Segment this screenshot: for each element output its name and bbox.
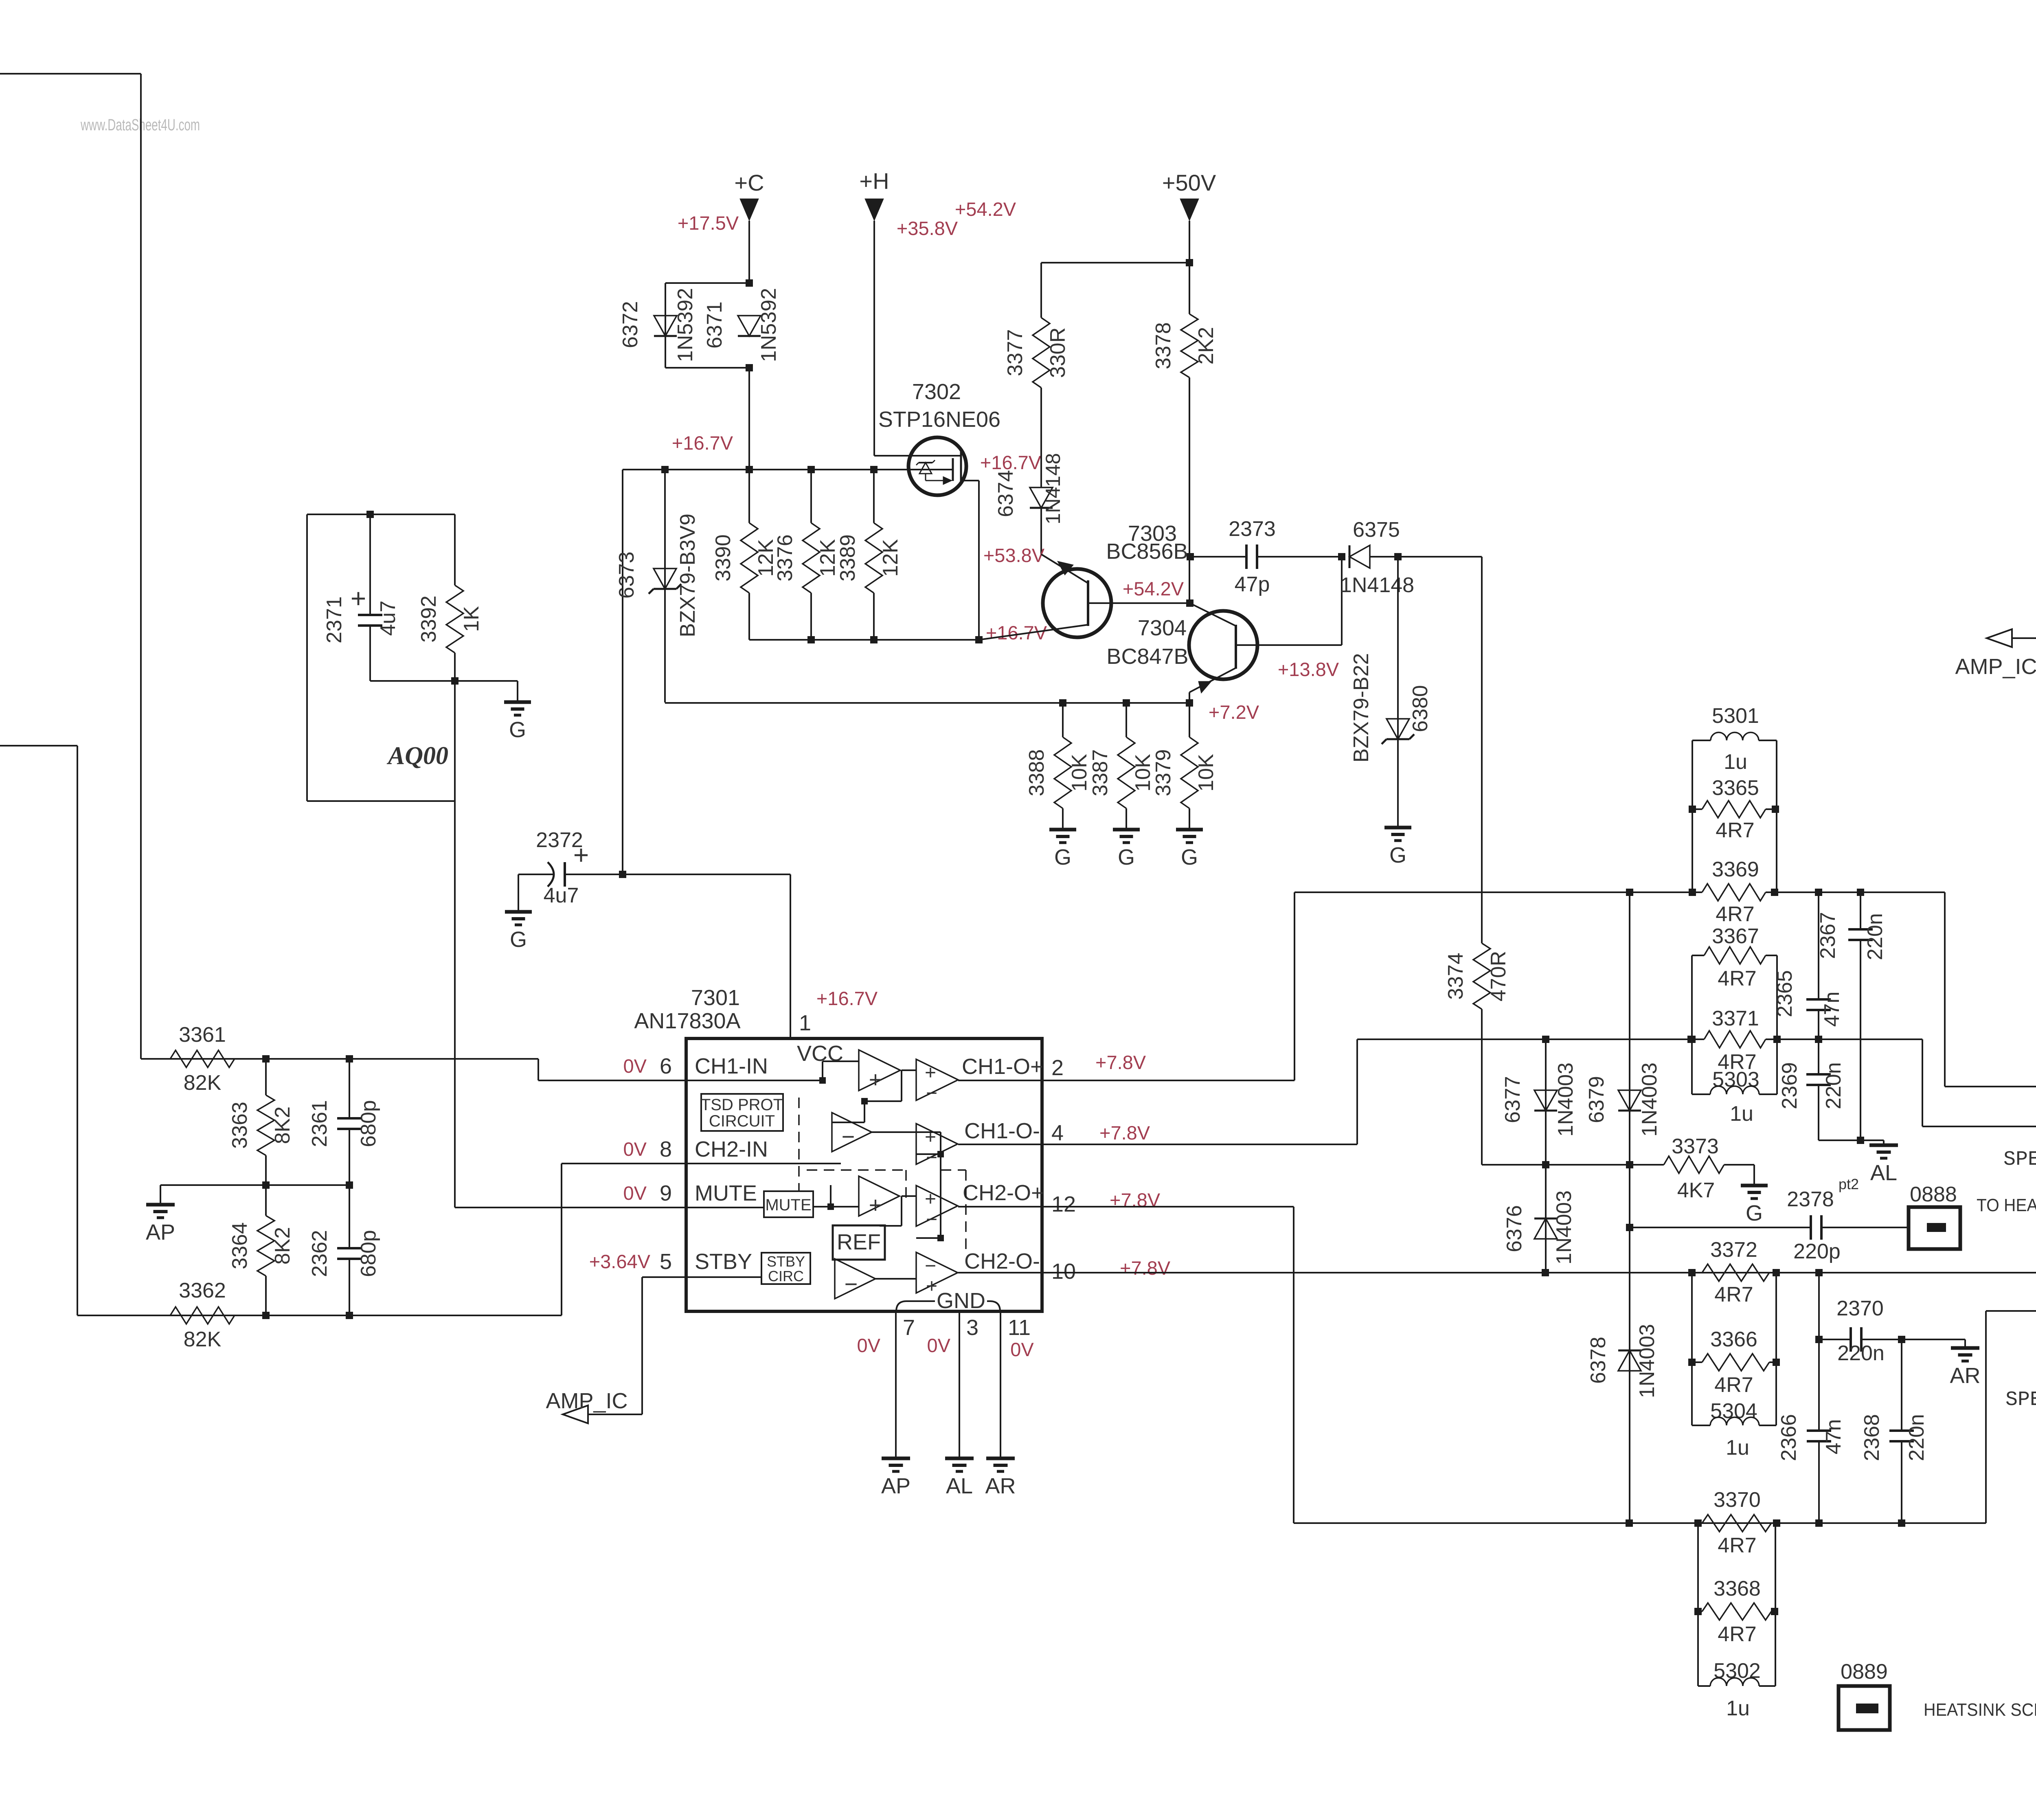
svg-text:12: 12 — [1051, 1192, 1076, 1216]
svg-text:1u: 1u — [1726, 1436, 1749, 1460]
inductor 5303 1u — [1692, 1086, 1777, 1094]
svg-text:3387: 3387 — [1088, 749, 1112, 797]
svg-text:CH2-O-: CH2-O- — [964, 1249, 1040, 1273]
svg-text:+54.2V: +54.2V — [1123, 578, 1184, 599]
junction — [1772, 806, 1779, 813]
svg-text:SPEAKER RIGHT: SPEAKER RIGHT — [2005, 1388, 2036, 1412]
wire 16.7V riser to 2372 — [622, 470, 623, 874]
label +7.2V — [1209, 701, 1259, 723]
ground G 6380 — [1384, 828, 1411, 867]
svg-text:STBY: STBY — [767, 1253, 805, 1270]
label diode 6372 — [619, 288, 697, 362]
svg-text:3388: 3388 — [1025, 749, 1049, 797]
junction — [1626, 1161, 1633, 1168]
label CH1-O- — [964, 1119, 1040, 1143]
junction — [1626, 1519, 1633, 1527]
svg-text:6374: 6374 — [994, 470, 1018, 517]
svg-text:5302: 5302 — [1713, 1659, 1761, 1683]
op-amp CH2 output- — [916, 1252, 958, 1297]
svg-text:0V: 0V — [623, 1138, 647, 1160]
label +16.7V at rail — [672, 432, 733, 454]
junction — [1773, 1359, 1780, 1366]
svg-text:0V: 0V — [857, 1335, 881, 1356]
junction — [1688, 1269, 1696, 1276]
junction — [1773, 1036, 1781, 1043]
junction — [1689, 889, 1696, 896]
power arrow +H — [865, 199, 884, 221]
label BC856B — [1106, 539, 1188, 564]
svg-text:330R: 330R — [1046, 327, 1070, 378]
label +16.7V right of 7302 — [980, 452, 1042, 473]
svg-text:4u7: 4u7 — [376, 601, 400, 636]
label STBY pin — [695, 1249, 752, 1274]
svg-text:+7.8V: +7.8V — [1095, 1052, 1146, 1073]
label +16.7V pin1 — [816, 988, 878, 1009]
svg-text:+: + — [925, 1126, 936, 1148]
transistor 7303 BC856B — [979, 554, 1189, 640]
label +53.8V — [983, 544, 1045, 566]
label capacitor 2369 — [1778, 1062, 1845, 1109]
svg-text:3369: 3369 — [1712, 858, 1759, 881]
junction — [1186, 259, 1193, 266]
svg-text:−: − — [926, 1082, 937, 1104]
svg-text:AL: AL — [1870, 1161, 1897, 1185]
svg-text:3363: 3363 — [228, 1102, 252, 1149]
svg-text:BZX79-B22: BZX79-B22 — [1349, 653, 1373, 763]
svg-text:G: G — [1054, 845, 1071, 869]
junction — [1815, 1519, 1823, 1527]
svg-text:6376: 6376 — [1503, 1205, 1526, 1252]
svg-text:680p: 680p — [357, 1100, 380, 1147]
svg-text:CIRCUIT: CIRCUIT — [709, 1112, 775, 1130]
svg-text:4R7: 4R7 — [1716, 819, 1754, 842]
junction — [1687, 1036, 1695, 1043]
svg-text:2367: 2367 — [1816, 912, 1840, 959]
label diode 6378 — [1586, 1324, 1659, 1398]
op-amp IC U7301 AN17830A outline — [686, 1038, 1042, 1311]
junction — [1815, 1336, 1823, 1343]
svg-text:AMP_IC: AMP_IC — [1955, 654, 2036, 679]
capacitor 2373 47p — [1190, 544, 1342, 569]
junction — [1626, 1224, 1633, 1231]
label +7.8V pin2 — [1095, 1052, 1146, 1073]
capacitor 2367 220n — [1848, 892, 1873, 1140]
svg-text:3372: 3372 — [1710, 1238, 1757, 1262]
label 3366 — [1710, 1328, 1757, 1351]
label diode 6374 — [994, 453, 1064, 524]
label 3372 — [1710, 1238, 1757, 1262]
label VCC — [797, 1041, 843, 1066]
resistor 3378 2K2 — [1152, 263, 1218, 557]
wire pin8 riser — [562, 1164, 686, 1315]
label diode 6377 — [1501, 1063, 1577, 1137]
junction — [262, 1312, 270, 1319]
svg-text:4R7: 4R7 — [1718, 967, 1756, 990]
node AMP_IC output arrow — [1987, 629, 2012, 647]
svg-text:8K2: 8K2 — [271, 1227, 294, 1265]
svg-text:+: + — [925, 1188, 936, 1210]
wire input bus CH1 from left edge — [0, 74, 141, 1059]
label pin 10 — [1051, 1259, 1076, 1284]
label +H — [859, 168, 889, 194]
label 7302 — [912, 380, 961, 404]
svg-text:−: − — [926, 1147, 937, 1168]
svg-text:6371: 6371 — [703, 301, 726, 349]
svg-text:−: − — [845, 1271, 858, 1297]
wire ladder1 right bus — [1776, 740, 1777, 892]
wire — [1040, 508, 1042, 554]
wire IC internal CH2-IN stub — [686, 1163, 841, 1164]
wire 6378 lead — [1629, 1165, 1630, 1523]
wire input bus CH2 from left edge — [0, 746, 77, 1315]
wire — [141, 1058, 170, 1060]
junction — [1815, 889, 1822, 896]
label +54.2V node — [1123, 578, 1184, 599]
svg-text:+16.7V: +16.7V — [986, 622, 1047, 643]
label pin 2 — [1051, 1056, 1064, 1080]
label SPEAKER RIGHT — [2005, 1388, 2036, 1412]
label CH1-O+ — [962, 1054, 1043, 1079]
svg-text:−: − — [842, 1124, 855, 1149]
wire pin 2 net — [1042, 892, 1692, 1080]
label 3372 value — [1714, 1283, 1753, 1306]
label 3369 — [1712, 858, 1759, 881]
svg-text:5303: 5303 — [1712, 1068, 1760, 1091]
wire — [748, 368, 750, 470]
wire zener 6373 branch — [664, 470, 666, 703]
svg-text:+: + — [926, 1276, 937, 1297]
svg-text:3378: 3378 — [1152, 322, 1175, 369]
wire 6376 lead — [1545, 1165, 1547, 1271]
wire AQ00 bottom rail — [370, 681, 518, 701]
label 3371 — [1712, 1007, 1759, 1030]
label 3373 value — [1677, 1179, 1715, 1202]
junction — [262, 1181, 270, 1189]
label 5303 — [1712, 1068, 1760, 1091]
junction — [1542, 1036, 1549, 1043]
wire IC internal CH1 stage link — [832, 1070, 916, 1122]
svg-text:3: 3 — [966, 1315, 979, 1340]
resistor 3370 4R7 — [1698, 1515, 1775, 1532]
label MUTE pin — [695, 1181, 757, 1205]
wire IC internal dashed TSD — [798, 1098, 800, 1191]
svg-text:+53.8V: +53.8V — [983, 544, 1045, 566]
op-amp CH1 inverting — [832, 1113, 872, 1152]
resistor 3376 12K — [773, 470, 840, 640]
wire pin 7 ground — [895, 1311, 897, 1458]
label +7.8V pin10 — [1120, 1257, 1171, 1279]
label capacitor 2372 — [536, 828, 589, 907]
junction — [746, 466, 753, 473]
wire pin 12 net — [1042, 1207, 1986, 1523]
svg-text:2361: 2361 — [308, 1100, 331, 1147]
svg-text:3370: 3370 — [1713, 1488, 1761, 1512]
label pin 9 — [660, 1181, 672, 1205]
svg-text:1N4003: 1N4003 — [1552, 1190, 1576, 1265]
svg-text:−: − — [925, 1255, 936, 1277]
svg-text:REF: REF — [837, 1230, 881, 1254]
svg-text:−: − — [926, 1209, 937, 1230]
junction — [870, 636, 878, 643]
svg-text:3376: 3376 — [773, 534, 797, 582]
ground G 3387 — [1113, 830, 1140, 869]
svg-text:47n: 47n — [1822, 1419, 1845, 1455]
label GND bracket — [896, 1289, 1000, 1313]
svg-text:CH1-IN: CH1-IN — [695, 1054, 768, 1078]
diode 6371 1N5392 — [738, 316, 761, 336]
svg-text:AP: AP — [881, 1474, 910, 1498]
wire speaker-left return rail — [1777, 1039, 2036, 1126]
label 3370 — [1713, 1488, 1761, 1512]
svg-text:3371: 3371 — [1712, 1007, 1759, 1030]
wire 6377 lead — [1545, 1039, 1547, 1165]
label 5301 — [1712, 704, 1759, 728]
label 3369 value — [1716, 902, 1754, 926]
junction — [870, 466, 878, 473]
ground G 2372 — [505, 912, 532, 952]
ground G AQ00 — [504, 702, 531, 742]
svg-text:3368: 3368 — [1713, 1577, 1761, 1600]
junction — [661, 466, 669, 473]
wire zener 6380 branch — [1397, 557, 1399, 827]
diode 6379 1N4003 — [1618, 1090, 1641, 1111]
wire pin 11 ground — [1000, 1311, 1001, 1458]
svg-text:CH1-O+: CH1-O+ — [962, 1054, 1043, 1079]
svg-text:2366: 2366 — [1777, 1414, 1801, 1461]
transistor 7302 STP16NE06 MOSFET — [908, 437, 979, 495]
svg-text:3364: 3364 — [228, 1222, 252, 1269]
resistor 3369 4R7 — [1692, 884, 1777, 901]
svg-text:10K: 10K — [1194, 754, 1218, 792]
label CH2-IN — [695, 1137, 768, 1161]
wire +7.2V rail — [665, 702, 1189, 704]
svg-text:BC847B: BC847B — [1106, 644, 1188, 669]
label BC847B — [1106, 644, 1188, 669]
resistor 3372 4R7 — [1692, 1264, 1776, 1281]
power arrow +50V — [1180, 199, 1199, 221]
svg-text:3379: 3379 — [1152, 749, 1175, 797]
label capacitor 2373 — [1229, 517, 1276, 596]
svg-text:TSD PROT: TSD PROT — [701, 1096, 783, 1114]
svg-text:+: + — [573, 840, 589, 870]
svg-text:1: 1 — [799, 1011, 811, 1035]
junction — [1815, 1269, 1823, 1276]
label 7303 — [1128, 521, 1177, 546]
svg-text:1u: 1u — [1726, 1697, 1750, 1720]
svg-text:+: + — [869, 1067, 882, 1092]
label +3.64V pin5 — [589, 1251, 651, 1272]
svg-text:4R7: 4R7 — [1718, 1622, 1756, 1646]
label +13.8V — [1278, 659, 1339, 680]
wire ladder1 left bus — [1692, 740, 1693, 892]
svg-text:1K: 1K — [460, 606, 483, 632]
svg-text:470R: 470R — [1487, 951, 1510, 1001]
wire AQ00 outline loop — [307, 514, 455, 801]
op-amp CH2 output+ — [916, 1186, 958, 1230]
label 5302 value — [1726, 1697, 1750, 1720]
wire ladder3 right bus — [1775, 1273, 1777, 1425]
junction — [1688, 1036, 1696, 1043]
junction — [262, 1055, 270, 1063]
junction — [1626, 889, 1633, 896]
svg-text:6377: 6377 — [1501, 1076, 1525, 1123]
ground AP — [146, 1205, 175, 1245]
svg-text:1N4003: 1N4003 — [1635, 1324, 1659, 1398]
svg-text:AMP_IC: AMP_IC — [546, 1389, 627, 1413]
svg-text:7302: 7302 — [912, 380, 961, 404]
diode 6377 1N4003 — [1534, 1090, 1557, 1111]
label 7301 — [691, 986, 740, 1010]
svg-text:1N4148: 1N4148 — [1340, 573, 1414, 597]
junction — [1771, 1608, 1778, 1615]
label diode 6376 — [1503, 1190, 1576, 1265]
svg-text:4K7: 4K7 — [1677, 1179, 1715, 1202]
junction — [366, 511, 374, 518]
svg-text:7304: 7304 — [1138, 616, 1187, 640]
svg-text:4: 4 — [1051, 1121, 1064, 1145]
svg-text:pt2: pt2 — [1839, 1176, 1859, 1192]
wire pin 4 net — [1042, 1039, 1691, 1144]
junction — [1857, 1137, 1864, 1144]
label 0V pin6 — [623, 1055, 647, 1077]
ground G 3388 — [1049, 830, 1076, 869]
svg-text:CIRC: CIRC — [768, 1268, 804, 1284]
svg-text:0888: 0888 — [1910, 1183, 1957, 1206]
svg-text:1N4148: 1N4148 — [1042, 453, 1064, 524]
wire ladder3 left bus — [1691, 1273, 1693, 1425]
junction — [975, 636, 983, 643]
label STP16NE06 — [878, 407, 1000, 432]
wire +16.7V gate rail — [623, 469, 953, 470]
wire 2370 row — [1902, 1339, 1965, 1347]
svg-text:680p: 680p — [357, 1230, 380, 1277]
wire 6372 branch loop — [665, 283, 749, 368]
svg-text:1N5392: 1N5392 — [757, 288, 781, 362]
label pin 5 — [660, 1249, 672, 1274]
ground G 3373 — [1741, 1186, 1768, 1225]
label 7304 — [1138, 616, 1187, 640]
zener 6380 BZX79-B22 — [1382, 719, 1414, 744]
wire 12K bottom rail +16.7V — [749, 639, 979, 641]
junction — [807, 636, 815, 643]
svg-text:1N4003: 1N4003 — [1638, 1063, 1661, 1137]
svg-text:220n: 220n — [1863, 913, 1887, 960]
label 3365 — [1712, 776, 1759, 800]
junction — [1857, 889, 1864, 896]
svg-text:+: + — [925, 1062, 936, 1084]
svg-text:BC856B: BC856B — [1106, 539, 1188, 564]
diode 6374 1N4148 — [1030, 487, 1053, 508]
svg-text:G: G — [1389, 843, 1406, 867]
junction — [1689, 806, 1696, 813]
wire — [748, 221, 750, 283]
wire — [235, 1058, 538, 1060]
svg-text:47p: 47p — [1235, 573, 1270, 596]
svg-text:+35.8V: +35.8V — [897, 217, 958, 239]
resistor 3361 82K — [170, 1023, 235, 1095]
diode 6376 1N4003 — [1534, 1218, 1557, 1239]
svg-text:82K: 82K — [184, 1328, 222, 1351]
svg-text:7: 7 — [903, 1315, 915, 1340]
label 0V pin8 — [623, 1138, 647, 1160]
svg-text:6379: 6379 — [1585, 1076, 1608, 1123]
junction — [1187, 553, 1194, 560]
capacitor 2366 47n — [1807, 1273, 1831, 1523]
label AMP_IC right — [1955, 654, 2036, 679]
junction — [1694, 1519, 1702, 1527]
diode 6372 1N5392 — [654, 316, 677, 336]
label diode 6379 — [1585, 1063, 1661, 1137]
svg-text:+H: +H — [859, 168, 889, 194]
wire — [77, 1315, 170, 1316]
label 0V pin11 — [1010, 1339, 1034, 1360]
label CH2-O+ — [963, 1181, 1044, 1205]
svg-text:220n: 220n — [1837, 1341, 1885, 1365]
wire — [1189, 221, 1190, 314]
junction — [1898, 1336, 1905, 1343]
svg-text:MUTE: MUTE — [695, 1181, 757, 1205]
svg-text:4R7: 4R7 — [1714, 1373, 1753, 1397]
label zener 6373 — [615, 514, 700, 637]
junction — [1815, 1036, 1822, 1043]
label 0V pin3 — [927, 1335, 951, 1356]
svg-text:+50V: +50V — [1162, 170, 1216, 195]
junction — [1773, 1269, 1780, 1276]
label capacitor 2378 — [1787, 1176, 1859, 1263]
svg-text:BZX79-B3V9: BZX79-B3V9 — [676, 514, 700, 637]
block MUTE — [764, 1191, 813, 1217]
wire ladder2 left bus — [1691, 955, 1693, 1094]
wire 3373 to ground — [1724, 1165, 1754, 1185]
svg-text:6372: 6372 — [619, 301, 642, 348]
svg-text:3392: 3392 — [417, 595, 441, 643]
svg-text:AR: AR — [1950, 1363, 1980, 1388]
svg-text:+17.5V: +17.5V — [678, 212, 739, 234]
label +54.2V top — [955, 198, 1016, 220]
svg-text:12K: 12K — [879, 539, 902, 577]
inductor 5304 1u — [1692, 1417, 1776, 1425]
capacitor 2378 220p — [1630, 1215, 1909, 1240]
label 5301 value — [1724, 750, 1747, 774]
wire IC internal CH1 input — [686, 1061, 859, 1084]
svg-text:G: G — [1746, 1201, 1763, 1225]
label pin 7 — [903, 1315, 915, 1340]
svg-text:G: G — [510, 927, 527, 952]
diode 6375 1N4148 — [1349, 545, 1370, 568]
wire IC internal CH1 inv out — [872, 1132, 944, 1241]
junction — [1186, 599, 1194, 607]
svg-text:4R7: 4R7 — [1714, 1283, 1753, 1306]
resistor 3363 8K2 — [228, 1059, 294, 1185]
svg-text:10: 10 — [1051, 1259, 1076, 1284]
junction — [346, 1312, 353, 1319]
label SPEAKER LEFT — [2003, 1148, 2036, 1171]
resistor 3364 8K2 — [228, 1185, 294, 1315]
resistor 3362 82K — [170, 1279, 235, 1351]
svg-text:+16.7V: +16.7V — [980, 452, 1042, 473]
svg-text:2: 2 — [1051, 1056, 1064, 1080]
label 5304 value — [1726, 1436, 1749, 1460]
inductor 5302 1u — [1698, 1678, 1775, 1686]
wire 2372 left to ground — [518, 874, 553, 911]
wire 7304 emitter to rail — [1189, 692, 1190, 703]
junction — [1694, 1608, 1702, 1615]
junction — [1773, 1519, 1780, 1527]
junction — [346, 1181, 353, 1189]
wire 1300-A pin1 riser — [1986, 1311, 2036, 1523]
label 5303 value — [1730, 1102, 1753, 1126]
svg-text:CH2-IN: CH2-IN — [695, 1137, 768, 1161]
